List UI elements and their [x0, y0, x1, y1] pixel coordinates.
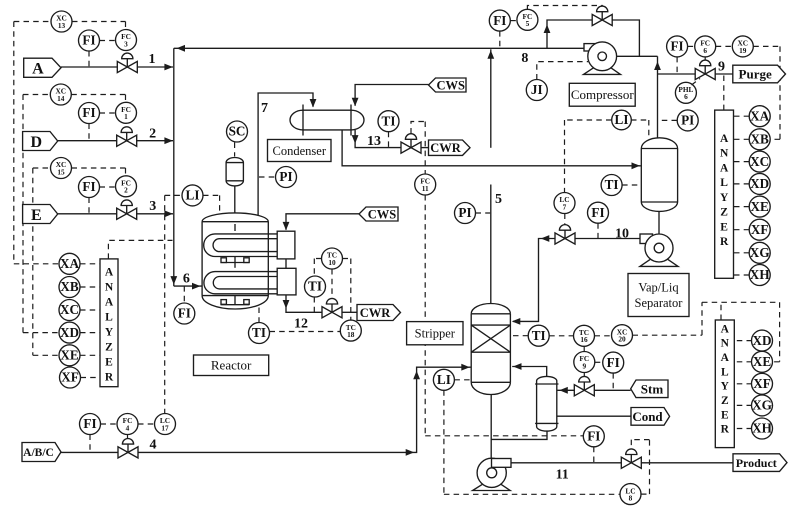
svg-text:6: 6	[183, 272, 190, 287]
signal analyzer2 row 1	[734, 361, 752, 363]
arrow feed D join	[164, 137, 173, 144]
svg-text:XF: XF	[751, 222, 769, 237]
instrument stripper TI	[528, 325, 549, 346]
svg-text:12: 12	[294, 317, 308, 332]
pipe steam line	[594, 389, 630, 391]
svg-text:E: E	[721, 409, 729, 421]
signal XE to analyzer	[80, 354, 100, 356]
signal analyzer1 row 2	[733, 161, 750, 163]
svg-text:LI: LI	[186, 188, 200, 203]
instrument SC agitator	[227, 121, 248, 142]
svg-text:FI: FI	[607, 355, 620, 370]
label box Stripper	[407, 322, 463, 345]
instrument FC3	[116, 30, 137, 51]
pipe condenser CWS	[355, 85, 428, 106]
stream tag ABC	[22, 443, 61, 462]
instrument TC10	[322, 248, 343, 269]
signal FC4 actuator	[127, 435, 129, 439]
svg-text:6: 6	[703, 46, 707, 55]
arrow line 5 up into recycle	[487, 50, 494, 59]
arrow stream 6 into reactor	[192, 283, 201, 290]
valve steam	[574, 376, 594, 396]
svg-text:LI: LI	[437, 372, 451, 387]
svg-text:19: 19	[739, 46, 747, 55]
svg-text:8: 8	[629, 494, 633, 503]
arrow line 10 into stripper	[512, 318, 521, 325]
svg-text:5: 5	[495, 192, 502, 207]
reactor agitator shaft dash	[234, 224, 236, 231]
instrument FI recycle	[489, 10, 510, 31]
instrument XB left	[59, 277, 80, 298]
signal PHL6 diagonal	[692, 79, 701, 86]
svg-text:A: A	[105, 296, 114, 308]
stream tag CWS reactor	[359, 207, 398, 222]
svg-text:5: 5	[526, 19, 530, 28]
svg-text:PI: PI	[458, 205, 471, 220]
signal purge analyzer sample	[723, 74, 725, 110]
signal FC6 actuator	[704, 57, 706, 60]
instrument XE right analyzer1	[749, 196, 770, 217]
instrument XC15	[51, 158, 72, 179]
signal analyzer2 row 3	[734, 404, 752, 406]
signal XA to analyzer	[80, 263, 100, 265]
svg-text:4: 4	[126, 423, 130, 432]
instrument FI line11	[583, 426, 604, 447]
svg-text:L: L	[105, 312, 113, 324]
instrument TI line13	[378, 111, 399, 132]
signal TC10 to valve	[331, 269, 333, 298]
stream tag A	[24, 58, 61, 77]
instrument FI ABC feed	[80, 414, 101, 435]
svg-text:14: 14	[57, 94, 65, 103]
valve E feed	[117, 200, 137, 219]
signal FI-11 drop	[593, 447, 595, 463]
reactor vessel	[202, 213, 268, 309]
svg-text:16: 16	[580, 335, 588, 344]
instrument XF right analyzer1	[749, 219, 770, 240]
coil connection box upper	[277, 231, 295, 259]
svg-text:TI: TI	[382, 113, 396, 128]
signal XB to analyzer	[80, 286, 100, 288]
signal TI-13 drop	[388, 132, 390, 148]
svg-text:A: A	[105, 266, 114, 278]
signal FC5 to bypass valve	[527, 6, 602, 10]
instrument XG right analyzer1	[749, 242, 770, 263]
svg-text:XA: XA	[750, 108, 770, 123]
signal analyzer2 row 2	[734, 383, 752, 385]
signal analyzer2 sample stub	[720, 302, 722, 320]
signal XC13 loop	[14, 22, 126, 30]
signal analyzer1 row 6	[733, 252, 750, 254]
svg-text:XG: XG	[752, 398, 772, 413]
signal PI line7 link	[259, 176, 275, 178]
stripper bottoms pump	[473, 458, 511, 490]
svg-text:1: 1	[124, 112, 128, 121]
instrument XF left	[60, 367, 81, 388]
agitator motor	[226, 158, 243, 214]
svg-text:15: 15	[57, 167, 65, 176]
signal FI-A to FC3	[100, 40, 116, 42]
pipe line 10	[575, 238, 640, 240]
signal PI line5 link	[476, 212, 491, 214]
arrow boilup into stripper	[513, 363, 522, 370]
arrow vapor riser up	[654, 62, 661, 71]
signal FI-8 to FC5	[510, 20, 517, 22]
svg-text:TI: TI	[252, 325, 266, 340]
svg-text:2: 2	[149, 127, 156, 142]
svg-text:Z: Z	[721, 395, 729, 407]
svg-text:E: E	[31, 207, 42, 224]
instrument FI line10	[588, 202, 609, 223]
pipe feed A to riser	[137, 66, 173, 68]
arrow feed riser down	[170, 276, 177, 285]
svg-text:3: 3	[124, 39, 128, 48]
pipe purge line	[658, 73, 696, 75]
valve condenser CW	[401, 134, 421, 154]
signal XC15 loop	[33, 168, 126, 176]
svg-text:XB: XB	[751, 132, 770, 147]
svg-text:FI: FI	[587, 429, 600, 444]
signal FC11 down line	[425, 195, 583, 436]
signal XC15 sample line	[32, 168, 34, 355]
reactor agitator lower impeller	[221, 296, 250, 305]
valve compressor bypass	[592, 6, 612, 26]
svg-text:FI: FI	[82, 33, 95, 48]
arrow feed E join	[164, 210, 173, 217]
instrument XD right analyzer1	[749, 173, 770, 194]
signal XF to analyzer	[81, 377, 101, 379]
signal FI-ABC to FC4	[101, 423, 118, 425]
pipe feed E	[58, 213, 117, 215]
signal reactor TI drop	[258, 308, 260, 323]
svg-text:Z: Z	[720, 207, 728, 219]
svg-text:N: N	[721, 338, 730, 350]
svg-text:XD: XD	[750, 176, 769, 191]
instrument stripper LI	[433, 369, 454, 390]
instrument separator LI	[612, 110, 632, 130]
pipe line 5 upper	[490, 49, 492, 148]
pipe reboiler boilup	[512, 367, 547, 377]
svg-text:A: A	[720, 133, 729, 145]
pipe line 10 left	[513, 239, 555, 322]
signal FI-A drop	[88, 51, 90, 67]
signal separator LI to LC7	[565, 120, 612, 193]
signal analyzer1 row 5	[733, 229, 750, 231]
pipe stripper bottoms	[490, 395, 492, 459]
stream tag CWR condenser	[429, 140, 471, 155]
analyzer box right analyzer bottom	[715, 320, 734, 448]
svg-text:Y: Y	[720, 192, 729, 204]
label box Reactor	[194, 355, 269, 376]
valve ABC feed	[118, 439, 138, 458]
instrument LC7	[554, 193, 575, 214]
pipe stream 6 into reactor	[174, 285, 202, 287]
instrument FI stream6	[174, 303, 195, 324]
signal TC16 to FC9	[583, 347, 585, 352]
stream tag CWS condenser	[429, 78, 467, 93]
pipe reboiler drain	[492, 431, 548, 439]
svg-text:FI: FI	[591, 205, 604, 220]
signal FI-ABC drop	[89, 435, 91, 453]
svg-text:FI: FI	[493, 13, 506, 28]
svg-text:XE: XE	[60, 348, 79, 363]
instrument XF right analyzer2	[752, 373, 773, 394]
svg-text:Vap/Liq: Vap/Liq	[638, 281, 679, 295]
pipe recycle line 8	[174, 47, 584, 49]
svg-text:XC: XC	[60, 302, 79, 317]
pipe line 11 to product	[641, 462, 733, 464]
svg-text:TI: TI	[308, 279, 322, 294]
svg-text:A/B/C: A/B/C	[23, 447, 54, 459]
svg-text:FI: FI	[82, 179, 95, 194]
instrument FC1	[116, 102, 137, 123]
signal stripper LI to LC8	[444, 390, 620, 494]
signal SC drop	[234, 143, 236, 157]
svg-text:17: 17	[161, 423, 169, 432]
arrow line 4 right	[406, 449, 415, 456]
svg-text:Y: Y	[721, 381, 730, 393]
pipe line 13 CWR	[355, 130, 401, 148]
condenser heat exchanger	[290, 105, 364, 136]
svg-text:A: A	[721, 352, 730, 364]
instrument XD right analyzer2	[752, 330, 773, 351]
svg-text:7: 7	[563, 202, 567, 211]
instrument XE right analyzer2	[752, 351, 773, 372]
instrument XA right analyzer1	[749, 106, 770, 127]
svg-text:Y: Y	[105, 327, 114, 339]
signal analyzer1 row 0	[733, 115, 750, 117]
signal XE row left	[33, 354, 59, 356]
stripper column	[471, 303, 510, 394]
signal TC10 right to TC18	[343, 259, 351, 321]
instrument PHL6	[675, 82, 696, 103]
svg-text:XH: XH	[752, 421, 773, 436]
svg-text:CWR: CWR	[430, 141, 462, 155]
svg-text:11: 11	[556, 468, 569, 483]
arrow recycle into riser	[177, 45, 186, 52]
stream tag Stm	[631, 380, 668, 398]
signal reactor LI to LC17 line	[165, 195, 182, 413]
signal stripper LI link	[454, 379, 471, 381]
pipe compressor bypass	[547, 20, 592, 48]
svg-text:XA: XA	[60, 256, 80, 271]
arrow steam into reboiler	[559, 387, 568, 394]
svg-text:13: 13	[58, 21, 66, 30]
svg-text:9: 9	[582, 361, 586, 370]
arrow reactor CW down	[283, 300, 290, 309]
svg-text:FI: FI	[178, 306, 191, 321]
svg-text:N: N	[720, 148, 729, 160]
pipe separator vapor riser	[657, 56, 659, 138]
svg-text:Purge: Purge	[739, 67, 772, 82]
instrument XA left	[59, 253, 80, 274]
svg-text:10: 10	[615, 227, 629, 242]
instrument FC2	[116, 176, 137, 197]
pipe line 4 to stripper	[138, 367, 471, 452]
pipe compressor bypass right	[612, 20, 639, 56]
arrow line 10 left	[541, 235, 550, 242]
svg-text:Product: Product	[736, 456, 777, 470]
svg-text:XF: XF	[753, 376, 771, 391]
instrument PI line5	[455, 203, 476, 224]
svg-text:Reactor: Reactor	[211, 358, 252, 373]
signal analyzer2 row 0	[734, 340, 752, 342]
signal FI-9 to FC6	[688, 45, 695, 47]
signal FI-10 drop	[597, 223, 599, 238]
svg-text:4: 4	[150, 438, 157, 453]
instrument FI D feed	[79, 103, 100, 124]
signal FI stream6 link	[183, 286, 185, 303]
signal FI-9 drop	[676, 57, 678, 74]
signal separator LI right	[631, 120, 649, 137]
arrow line 7 into condenser	[310, 99, 317, 108]
svg-text:1: 1	[149, 52, 156, 67]
instrument FC4	[117, 414, 138, 435]
instrument FC9	[574, 352, 595, 373]
instrument FI purge	[667, 36, 688, 57]
signal TI to TC16	[549, 335, 573, 337]
valve reactor CW	[322, 298, 342, 318]
svg-text:CWR: CWR	[360, 306, 392, 320]
arrow condenser CWS down	[352, 98, 359, 107]
signal LC7 actuator	[564, 214, 566, 225]
pipe purge to tag	[715, 73, 733, 75]
pipe line 11	[511, 462, 621, 464]
signal analyzer1 row 4	[733, 206, 750, 208]
svg-text:Z: Z	[105, 342, 113, 354]
arrow bypass up	[544, 25, 551, 34]
arrow feed A join	[164, 64, 173, 71]
svg-text:L: L	[720, 177, 728, 189]
valve purge	[695, 60, 715, 80]
instrument FC6	[695, 36, 716, 57]
svg-text:PI: PI	[681, 113, 694, 128]
signal PI purge link	[659, 119, 678, 121]
instrument PI purge	[677, 110, 698, 131]
label box VapLiq Separator	[628, 274, 689, 317]
instrument XC20	[612, 325, 633, 346]
signal FI steam drop	[612, 373, 614, 390]
svg-text:11: 11	[422, 184, 429, 193]
svg-text:XD: XD	[752, 333, 771, 348]
svg-text:20: 20	[618, 335, 626, 344]
pipe line 13 to CWR tag	[421, 147, 429, 149]
reactor agitator upper impeller	[221, 257, 250, 268]
svg-text:XF: XF	[61, 370, 79, 385]
svg-text:XH: XH	[750, 267, 771, 282]
signal condenser valve to FC11	[411, 122, 425, 175]
stream tag Cond	[631, 408, 670, 426]
svg-text:FI: FI	[83, 416, 96, 431]
svg-text:7: 7	[261, 101, 268, 116]
svg-text:3: 3	[149, 199, 156, 214]
svg-text:Stripper: Stripper	[415, 326, 456, 340]
instrument FI steam	[603, 352, 624, 373]
signal XC20 sample loop	[633, 302, 780, 362]
instrument XC13	[51, 11, 72, 32]
signal left analyzer sample	[108, 240, 172, 259]
signal XC13 sample line	[13, 22, 15, 264]
arrow line 4 up	[413, 371, 420, 380]
svg-text:Condenser: Condenser	[273, 144, 327, 158]
pipe line 7	[258, 93, 313, 216]
instrument reactor LI	[182, 185, 203, 206]
instrument JI compressor	[526, 80, 547, 101]
svg-text:9: 9	[718, 60, 725, 75]
pipe feed A	[61, 66, 117, 68]
signal FI-E drop	[88, 198, 90, 214]
svg-text:XG: XG	[750, 245, 770, 260]
instrument FC11	[415, 174, 436, 195]
signal FI-8 drop	[499, 31, 501, 48]
pipe compressor suction	[617, 55, 658, 57]
valve product	[621, 449, 641, 468]
svg-text:A: A	[32, 61, 44, 78]
svg-text:2: 2	[124, 186, 128, 195]
instrument reactor TI lower	[249, 323, 270, 344]
signal XC14 sample line	[22, 95, 24, 333]
pipe reactor CWS	[286, 214, 366, 230]
pipe condensate	[557, 415, 631, 417]
instrument LC8	[620, 484, 641, 505]
instrument XG right analyzer2	[752, 395, 773, 416]
svg-text:FI: FI	[82, 105, 95, 120]
svg-text:TI: TI	[532, 328, 546, 343]
svg-text:Compressor: Compressor	[571, 87, 635, 102]
signal XC14 loop	[23, 95, 126, 103]
signal reactor LI to vessel	[203, 195, 220, 212]
svg-text:6: 6	[684, 92, 688, 101]
svg-text:L: L	[721, 366, 729, 378]
svg-text:8: 8	[521, 51, 528, 66]
signal FC9 actuator	[583, 373, 585, 377]
pipe reactor CW outlet	[286, 295, 322, 312]
arrow line 13 down	[352, 135, 359, 144]
instrument FC5	[517, 9, 538, 30]
instrument LC17	[155, 414, 176, 435]
coil connection box lower	[277, 268, 296, 295]
pipe steam to reboiler	[558, 389, 575, 391]
pipe feed D to riser	[137, 140, 173, 142]
signal FC9 to FI	[595, 361, 603, 363]
pipe feed D	[58, 140, 117, 142]
svg-text:LI: LI	[615, 112, 629, 127]
signal FI-E to FC2	[100, 186, 116, 188]
reactor cooling coil lower	[204, 272, 277, 294]
svg-text:Cond: Cond	[632, 409, 663, 424]
instrument XC14	[50, 84, 71, 105]
instrument FI E feed	[79, 177, 100, 198]
instrument XC left	[59, 300, 80, 321]
stream tag Product	[733, 454, 787, 472]
valve separator liquid	[555, 225, 575, 244]
signal XC19 to XB	[753, 46, 780, 139]
analyzer box right analyzer top	[715, 110, 734, 278]
svg-text:PI: PI	[279, 169, 292, 184]
svg-text:N: N	[105, 281, 114, 293]
stripper reboiler	[535, 376, 558, 431]
signal TC10 left drop	[314, 259, 321, 313]
svg-text:XE: XE	[753, 354, 772, 369]
signal FC4 to LC17	[138, 423, 155, 425]
instrument separator TI	[601, 175, 622, 196]
svg-text:R: R	[720, 236, 729, 248]
svg-text:XE: XE	[751, 199, 770, 214]
signal FI-D to FC1	[100, 112, 116, 114]
svg-text:CWS: CWS	[437, 79, 466, 93]
instrument XB right analyzer1	[749, 129, 770, 150]
signal analyzer2 row 4	[734, 428, 752, 430]
